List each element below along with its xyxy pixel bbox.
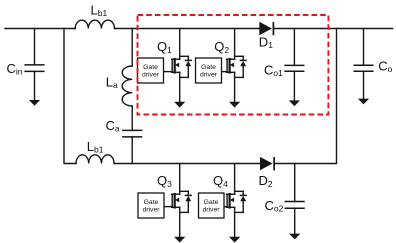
wire Co2 branch upper <box>294 164 296 202</box>
wire Co branch lower <box>363 71 365 99</box>
capacitor Co1 <box>285 65 304 71</box>
wire Co1 branch lower <box>293 71 295 100</box>
wire Ca to lower rail <box>131 137 133 164</box>
svg-text:Gate: Gate <box>204 199 219 206</box>
capacitor Co <box>354 65 373 71</box>
ground (Co1) <box>289 100 300 106</box>
wire left rail-to-rail vertical <box>64 29 76 164</box>
wire Co branch upper <box>363 29 365 66</box>
wire Co1 branch upper <box>293 29 295 66</box>
diode D2 <box>260 157 274 171</box>
wire Cin branch upper <box>34 29 36 65</box>
wire top rail middle segment <box>115 28 260 30</box>
wire lower rail middle segment <box>114 163 260 165</box>
diode D1 <box>259 22 273 36</box>
wire top rail left segment <box>5 28 75 30</box>
inductor La <box>122 66 132 106</box>
wire La to Ca <box>131 106 133 130</box>
transistor Q4 <box>224 164 246 237</box>
wire Co2 branch lower <box>294 208 296 234</box>
wire lower rail right segment to output riser <box>275 29 337 164</box>
gate driver box Q2 <box>196 58 222 83</box>
transistor Q2 <box>221 29 247 102</box>
gate driver box Q4 <box>199 193 225 218</box>
ground (Q3) <box>174 237 185 243</box>
svg-text:Gate: Gate <box>143 64 158 71</box>
ground (Q1) <box>174 102 185 108</box>
wire La branch top <box>131 29 133 67</box>
svg-text:Gate: Gate <box>201 64 216 71</box>
inductor Lb1 (top) <box>75 20 114 28</box>
dashed highlight box <box>138 15 329 115</box>
gate driver box Q1 <box>138 58 164 83</box>
capacitor Co2 <box>285 202 304 209</box>
gate driver box Q3 <box>138 193 164 218</box>
transistor Q3 <box>164 164 191 237</box>
wire Cin branch lower <box>34 71 36 100</box>
ground (Q4) <box>229 237 240 243</box>
ground (Co2) <box>289 234 300 240</box>
ground (Cin) <box>29 100 40 106</box>
wire top rail right segment <box>274 28 392 30</box>
ground (Co) <box>358 99 369 105</box>
svg-text:Gate: Gate <box>144 199 159 206</box>
svg-text:driver: driver <box>142 72 160 79</box>
capacitor Cin <box>25 65 44 72</box>
svg-text:driver: driver <box>200 72 218 79</box>
ground (Q2) <box>229 102 240 108</box>
inductor Lb1 (bottom) <box>76 155 114 164</box>
svg-text:driver: driver <box>203 207 221 214</box>
transistor Q1 <box>164 29 192 102</box>
svg-text:driver: driver <box>143 207 161 214</box>
capacitor Ca <box>123 130 142 137</box>
